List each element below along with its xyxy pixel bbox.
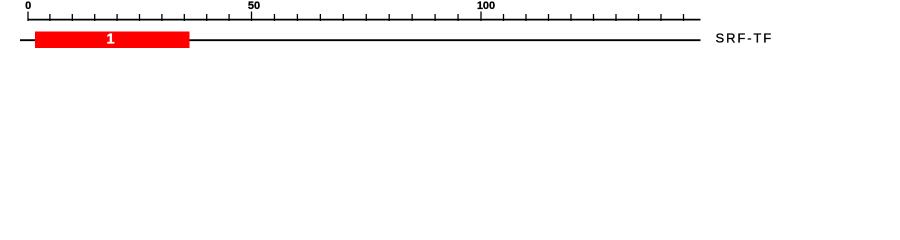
svg-text:50: 50 bbox=[248, 0, 260, 12]
major tick 100 bbox=[480, 12, 482, 22]
svg-text:1: 1 bbox=[106, 32, 114, 48]
svg-text:100: 100 bbox=[477, 0, 495, 12]
domain box 1 (red) bbox=[35, 32, 190, 49]
major tick 0 bbox=[27, 12, 29, 22]
svg-text:SRF-TF: SRF-TF bbox=[716, 31, 774, 46]
svg-text:0: 0 bbox=[25, 0, 31, 12]
minor ticks 5-45 bbox=[50, 14, 229, 21]
major tick 50 bbox=[251, 12, 253, 22]
minor ticks 55-95 bbox=[274, 14, 458, 21]
ruler axis line bbox=[28, 19, 701, 21]
minor ticks 105-145 bbox=[504, 14, 684, 21]
sequence backbone line bbox=[20, 39, 701, 41]
